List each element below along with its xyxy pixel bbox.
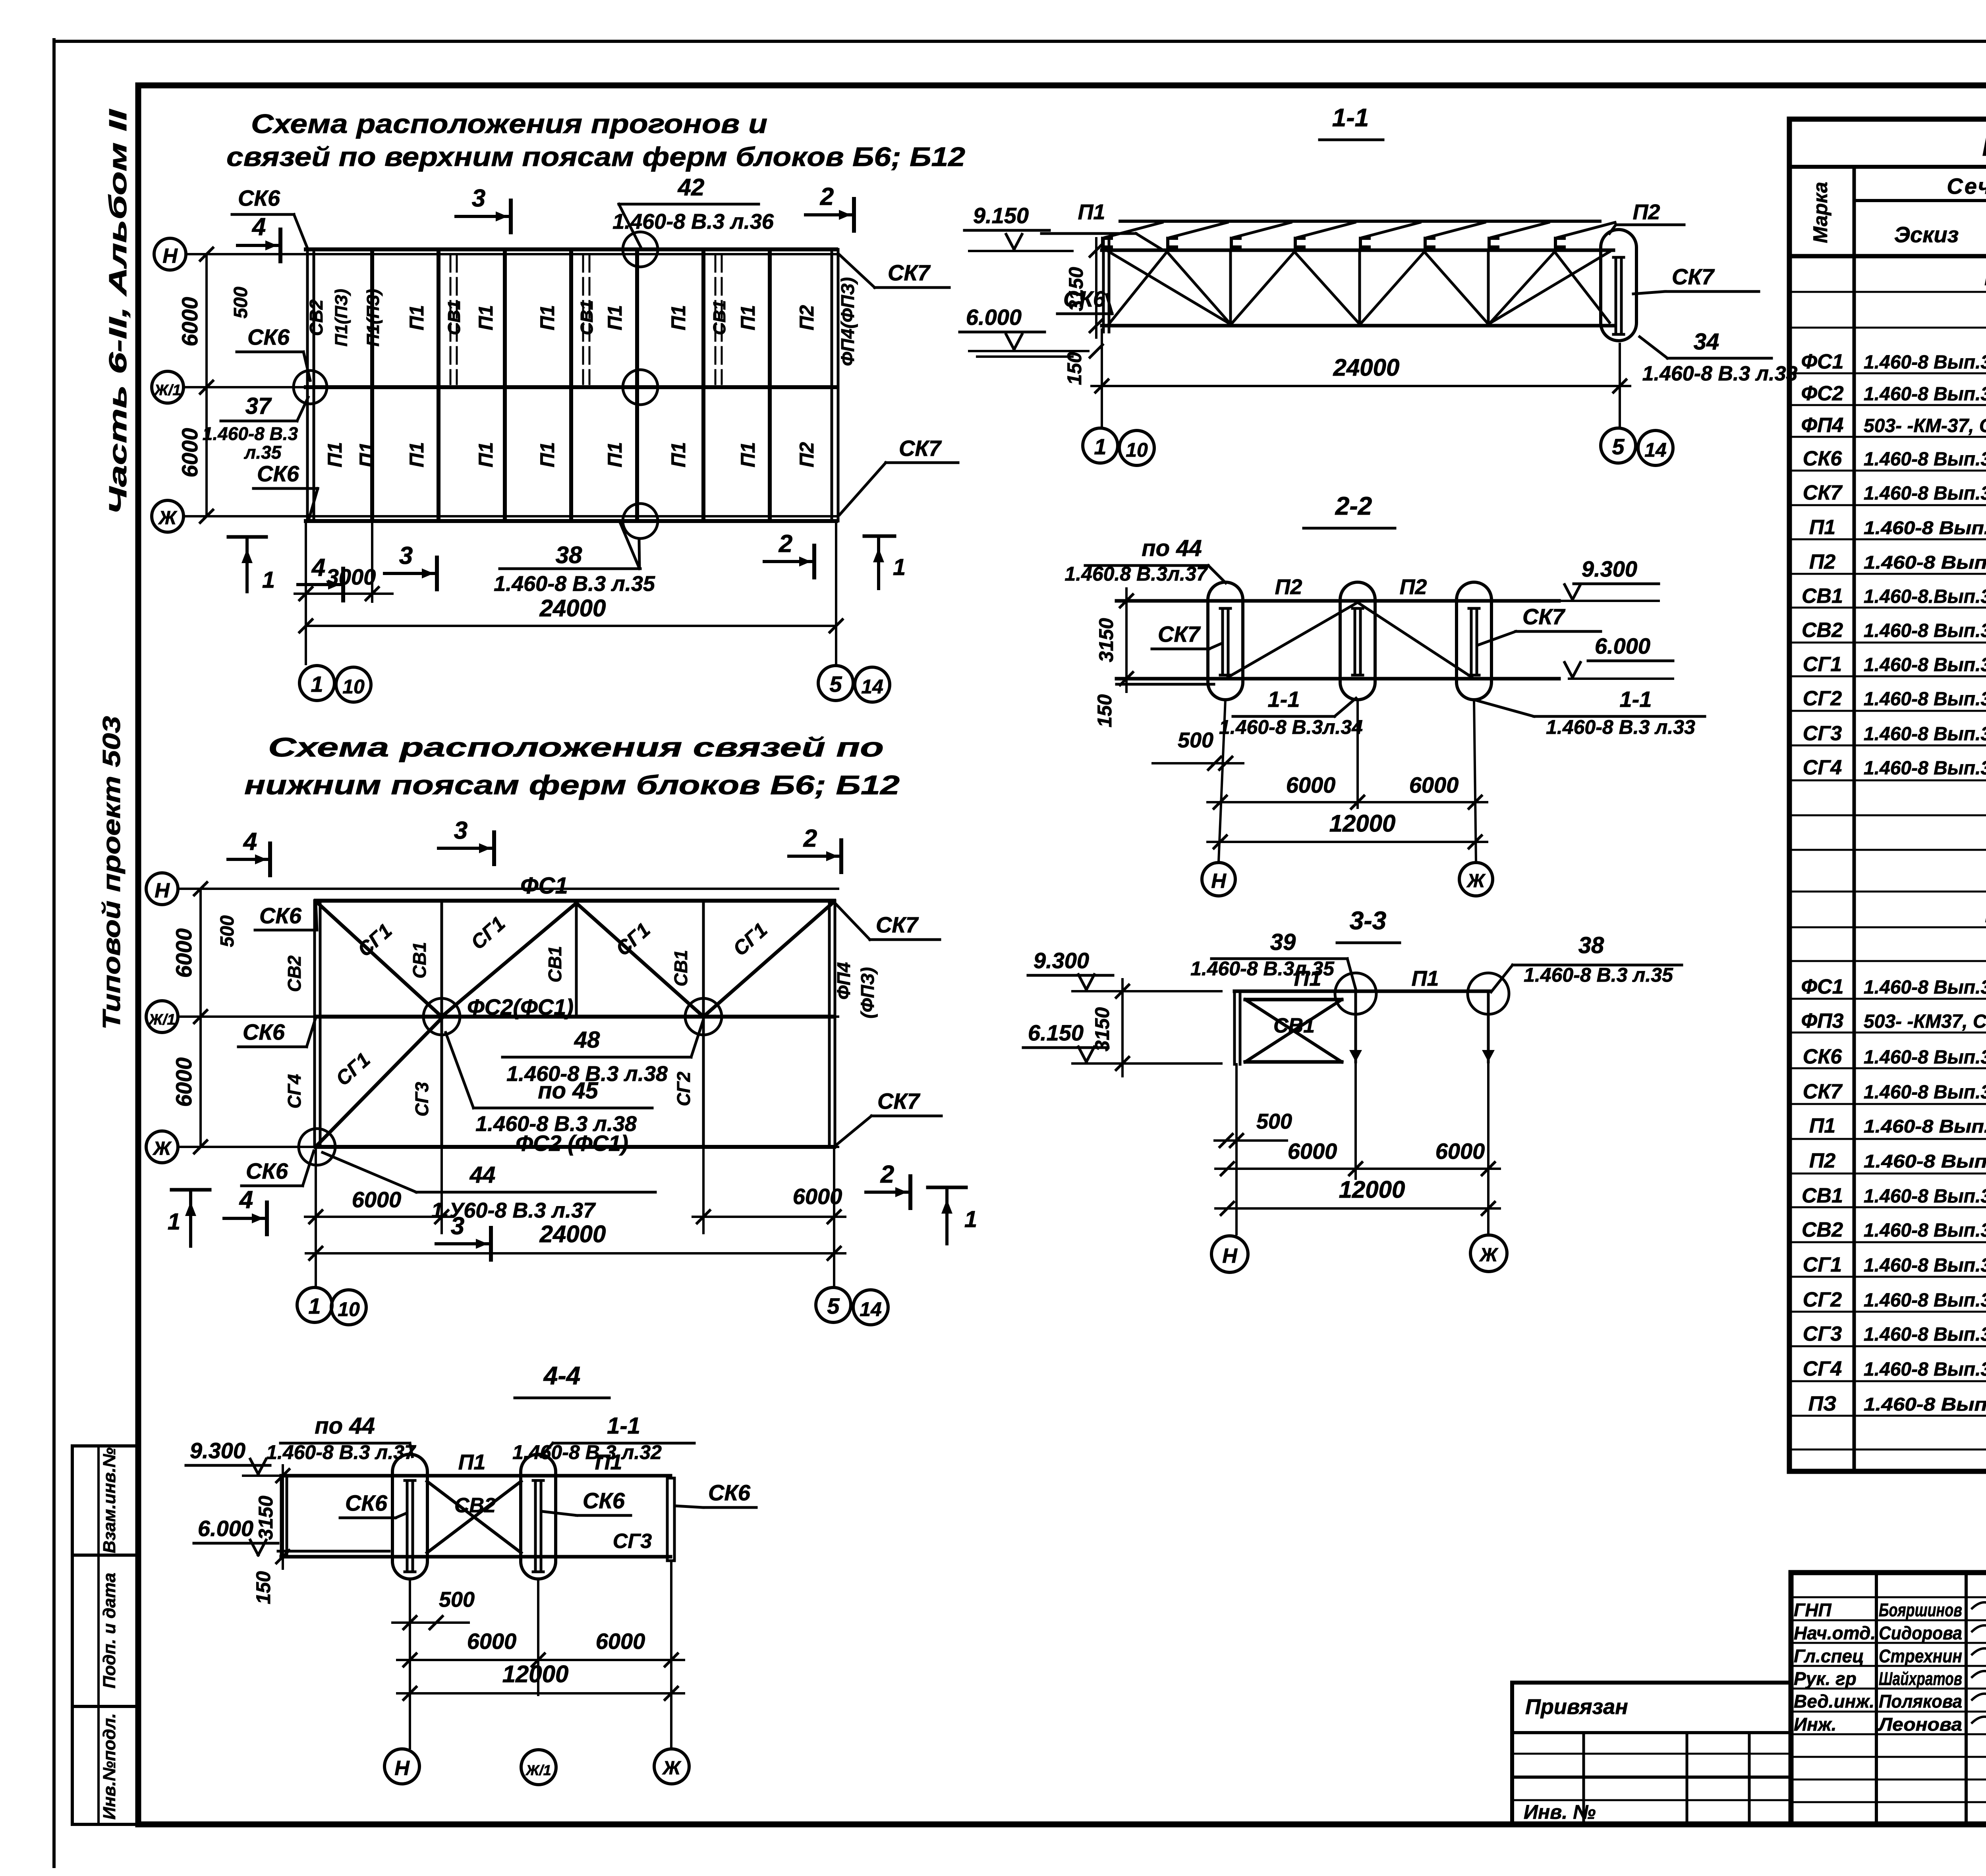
- extension lines (4-4): [409, 1579, 411, 1748]
- node circle right (3-3): [1468, 973, 1509, 1014]
- svg-text:СВ1: СВ1: [670, 950, 691, 986]
- svg-text:6000: 6000: [596, 1629, 645, 1654]
- svg-text:связей по верхним поясам ф: связей по верхним поясам ферм блоков Б6;…: [226, 142, 965, 172]
- truss 1-1 web diagonal: [1108, 252, 1167, 325]
- svg-text:Ж: Ж: [662, 1758, 682, 1779]
- 3-3 top chord: [1234, 990, 1490, 993]
- grid circle Н (3-3): [1211, 1236, 1248, 1272]
- svg-text:СК7: СК7: [876, 912, 919, 937]
- truss 1-1 web diagonal: [1109, 252, 1229, 323]
- svg-text:1.460-8 Вып.3 л.18, ССО-1: 1.460-8 Вып.3 л.18, ССО-1 (3шт.): [1864, 1047, 1986, 1068]
- svg-text:14: 14: [1644, 439, 1667, 461]
- svg-text:П1: П1: [458, 1450, 486, 1474]
- svg-text:1-1: 1-1: [1332, 103, 1369, 132]
- svg-text:СВ1: СВ1: [444, 300, 464, 335]
- svg-text:24000: 24000: [1333, 354, 1400, 381]
- svg-text:1.460-8 Вып.3 л.64, ГОСТ8278-8: 1.460-8 Вып.3 л.64, ГОСТ8278-83; СЕ-2 (2…: [1864, 1151, 1986, 1172]
- svg-text:СК6: СК6: [257, 461, 299, 486]
- svg-text:П1: П1: [667, 305, 690, 330]
- outer border top line: [54, 40, 1986, 43]
- svg-text:Н: Н: [394, 1757, 410, 1780]
- left vertical dim 6000/6000 (lower plan): [199, 889, 202, 1147]
- svg-text:1: 1: [311, 672, 323, 697]
- svg-text:5: 5: [827, 1293, 840, 1318]
- svg-text:4: 4: [311, 554, 325, 581]
- grid circle Ж/1 (4-4): [521, 1750, 556, 1785]
- svg-text:П1: П1: [737, 442, 759, 467]
- svg-text:СВ2: СВ2: [1802, 1218, 1843, 1241]
- lower plan left edge double: [313, 901, 316, 1147]
- grid circle Н (2-2): [1202, 863, 1235, 896]
- 3-3 left vertical double: [1233, 991, 1236, 1064]
- svg-text:6000: 6000: [467, 1629, 517, 1654]
- purlin bracket (1-1): [1103, 238, 1111, 247]
- grid line Ж: [184, 515, 838, 517]
- svg-text:П1: П1: [406, 305, 428, 330]
- svg-text:П1: П1: [1809, 1114, 1835, 1137]
- grid circle Ж/1 (upper plan): [152, 371, 184, 403]
- svg-text:1.460-8 Вып.3 л.64; ГОСТ8278-8: 1.460-8 Вып.3 л.64; ГОСТ8278-83, СП-2 (1…: [1864, 517, 1986, 538]
- svg-text:СК6: СК6: [1803, 447, 1843, 470]
- svg-text:1.460-8 В.3 л.35: 1.460-8 В.3 л.35: [1524, 964, 1673, 986]
- svg-text:1.460-8 Вып.3 л.18, ССО-5: 1.460-8 Вып.3 л.18, ССО-5 (2шт.): [1864, 1082, 1986, 1103]
- svg-text:Ж: Ж: [152, 1138, 172, 1159]
- svg-text:Гл.спец: Гл.спец: [1794, 1646, 1864, 1666]
- svg-text:СВ1: СВ1: [577, 300, 597, 335]
- svg-text:Н: Н: [1222, 1245, 1238, 1268]
- extension lines upper plan dims: [305, 524, 307, 664]
- 2-2 diagonal left: [1228, 602, 1358, 677]
- svg-text:24000: 24000: [539, 595, 606, 621]
- svg-text:1.460-8 Вып.3 л.61, СВ1 (1: 1.460-8 Вып.3 л.61, СВ1 (1шт.): [1864, 1290, 1986, 1311]
- purlin bracket (1-1): [1231, 238, 1240, 247]
- svg-text:150: 150: [252, 1571, 274, 1604]
- svg-text:34: 34: [1694, 329, 1719, 355]
- svg-text:П1: П1: [1294, 967, 1321, 990]
- upper plan middle chord: [306, 385, 836, 389]
- svg-text:л.35: л.35: [244, 442, 282, 463]
- extension lines lower plan dims: [315, 1150, 317, 1286]
- svg-text:Шайхратов: Шайхратов: [1879, 1668, 1962, 1689]
- svg-text:3150: 3150: [1091, 1007, 1113, 1051]
- svg-text:3150: 3150: [1095, 618, 1117, 662]
- title block outer frame: [1791, 1573, 1986, 1824]
- svg-text:1-1: 1-1: [607, 1413, 640, 1439]
- node circle 3 (lower plan bottom-left): [299, 1129, 335, 1165]
- svg-text:СК6: СК6: [345, 1490, 388, 1515]
- svg-text:6.000: 6.000: [198, 1516, 253, 1541]
- svg-text:3150: 3150: [255, 1496, 277, 1540]
- node circle 1 (lower plan): [423, 998, 460, 1035]
- truss 1-1 top chord: [1102, 249, 1613, 252]
- svg-text:нижним поясам ферм блоков: нижним поясам ферм блоков Б6; Б12: [244, 770, 900, 800]
- grid circle Ж (4-4): [654, 1749, 689, 1784]
- svg-text:1.460-8 В.3 л.37: 1.460-8 В.3 л.37: [266, 1441, 416, 1463]
- svg-text:6000: 6000: [352, 1187, 402, 1212]
- grid circle Ж (lower plan): [146, 1131, 178, 1163]
- purlin П1 line 1: [370, 252, 374, 519]
- svg-text:1.460-8.Вып.3 л.60, СР: 1.460-8.Вып.3 л.60, СР (3шт.): [1864, 586, 1986, 607]
- svg-text:СГ3: СГ3: [411, 1082, 432, 1116]
- svg-text:СК6: СК6: [243, 1019, 285, 1044]
- svg-text:ФС2(ФС1): ФС2(ФС1): [467, 994, 574, 1019]
- lower plan top chord ФС1: [316, 899, 834, 903]
- svg-text:9.300: 9.300: [1582, 556, 1637, 581]
- СВ2 cross brace (4-4): [427, 1481, 521, 1553]
- svg-text:37: 37: [245, 393, 272, 419]
- svg-text:П1: П1: [737, 305, 759, 330]
- grid circle Ж/1 (lower plan): [146, 1001, 178, 1033]
- 2-2 top chord П2: [1117, 599, 1559, 603]
- svg-text:СК6: СК6: [259, 903, 302, 928]
- svg-text:СК6: СК6: [1803, 1045, 1843, 1068]
- svg-text:1.460-8 Вып.3 л.64; ГОСТ8278-8: 1.460-8 Вып.3 л.64; ГОСТ8278-83, СП-2 (1…: [1864, 1116, 1986, 1137]
- svg-text:6000: 6000: [1286, 772, 1336, 797]
- svg-text:10: 10: [1126, 439, 1148, 461]
- svg-text:Взам.инв.№: Взам.инв.№: [100, 1448, 119, 1553]
- lower plan bottom chord ФС2: [316, 1145, 834, 1149]
- svg-text:500: 500: [1256, 1110, 1292, 1133]
- diagonal СГ1 b: [442, 903, 576, 1017]
- grid circle 14 (1-1): [1638, 430, 1673, 465]
- truss 1-1 web diagonal: [1488, 252, 1555, 325]
- svg-text:СК7: СК7: [888, 260, 931, 285]
- purlin bracket (1-1): [1360, 238, 1369, 247]
- svg-text:Сечение: Сечение: [1947, 174, 1986, 199]
- truss 1-1 web diagonal: [1360, 252, 1424, 325]
- svg-text:СК7: СК7: [1522, 604, 1566, 629]
- extension lines (2-2): [1219, 700, 1225, 862]
- svg-text:1.460-8 В.3 л.35: 1.460-8 В.3 л.35: [494, 572, 655, 596]
- dim 6000+6000 (3-3): [1215, 1168, 1500, 1170]
- grid circle Н (lower plan): [146, 873, 178, 905]
- svg-text:СК7: СК7: [1803, 1080, 1843, 1103]
- svg-text:1: 1: [168, 1209, 180, 1235]
- svg-text:П2: П2: [796, 442, 818, 467]
- svg-text:Марка: Марка: [1809, 182, 1831, 243]
- 4-4 left vertical double: [280, 1476, 283, 1557]
- svg-text:1.460-8 Вып.3 л.60, СР (: 1.460-8 Вып.3 л.60, СР (3 шт.): [1864, 1186, 1986, 1207]
- svg-text:Ж: Ж: [1479, 1245, 1499, 1266]
- svg-text:12000: 12000: [1339, 1176, 1405, 1203]
- svg-text:12000: 12000: [1329, 810, 1396, 837]
- svg-text:Ж: Ж: [1466, 870, 1486, 892]
- section mark 1 (bottom-right, upper plan): [864, 535, 894, 538]
- svg-text:Эскиз: Эскиз: [1894, 222, 1959, 247]
- svg-text:СК7: СК7: [877, 1089, 921, 1114]
- svg-text:СГ2: СГ2: [673, 1071, 694, 1106]
- svg-text:П1: П1: [667, 442, 690, 467]
- grid circle Н (4-4): [384, 1749, 419, 1784]
- svg-text:3: 3: [454, 817, 468, 844]
- svg-text:500: 500: [439, 1588, 475, 1612]
- svg-text:СВ1: СВ1: [710, 300, 729, 335]
- purlin П1 line 3: [503, 252, 507, 519]
- svg-text:по 44: по 44: [1142, 535, 1202, 561]
- grid circle 1 (lower plan): [297, 1287, 332, 1322]
- svg-text:Схема расположения связей п: Схема расположения связей по: [268, 732, 884, 762]
- svg-text:1.460-8 В.3 л.33: 1.460-8 В.3 л.33: [1642, 362, 1798, 385]
- table header cells: [1853, 167, 1856, 1471]
- svg-text:48: 48: [574, 1027, 600, 1053]
- svg-text:1.460-8 Вып.3 л.61, СВ1 (: 1.460-8 Вып.3 л.61, СВ1 (1шт.): [1864, 689, 1986, 710]
- svg-text:ГНП: ГНП: [1794, 1600, 1831, 1620]
- svg-text:6000: 6000: [177, 297, 202, 347]
- svg-text:38: 38: [1578, 932, 1604, 958]
- СК7 capsule (1-1 right end): [1601, 230, 1636, 341]
- outer border left line: [52, 40, 56, 1866]
- svg-text:СК6: СК6: [708, 1480, 751, 1505]
- title block signature row lines: [1791, 1596, 1986, 1598]
- svg-text:Схема расположения прогонов: Схема расположения прогонов и: [251, 109, 767, 139]
- svg-text:6000: 6000: [171, 1058, 196, 1107]
- svg-text:Часть 6-II, Альбом II: Часть 6-II, Альбом II: [104, 108, 132, 515]
- svg-text:1.460-8 В.3 л.36: 1.460-8 В.3 л.36: [612, 210, 774, 234]
- svg-text:3: 3: [399, 542, 413, 569]
- truss 1-1 web diagonal: [1231, 252, 1294, 325]
- svg-text:П1: П1: [1809, 516, 1835, 539]
- svg-text:1: 1: [964, 1206, 977, 1232]
- svg-text:1.460-8 Вып.3 л.60, СВС1 (1ш: 1.460-8 Вып.3 л.60, СВС1 (1шт.): [1864, 1220, 1986, 1241]
- svg-text:П1: П1: [475, 305, 497, 330]
- svg-text:П1: П1: [536, 305, 558, 330]
- svg-text:СВ1: СВ1: [1802, 1184, 1843, 1207]
- grid circle 1 (upper plan): [299, 666, 334, 701]
- svg-text:2: 2: [803, 825, 817, 852]
- svg-text:ФС2: ФС2: [1801, 382, 1843, 405]
- svg-text:П1: П1: [604, 305, 626, 330]
- svg-text:1.460-8 В.3 л.33: 1.460-8 В.3 л.33: [1546, 716, 1695, 738]
- svg-text:Нач.отд.: Нач.отд.: [1794, 1623, 1876, 1643]
- svg-text:12000: 12000: [502, 1661, 569, 1687]
- truss 1-1 left post: [1102, 240, 1105, 332]
- dim 12000 (3-3): [1215, 1207, 1500, 1210]
- truss 1-1 vertical: [1487, 250, 1490, 326]
- diagonal СГ1 a: [318, 903, 442, 1017]
- svg-text:5: 5: [1612, 434, 1625, 459]
- grid line Ж (lower plan): [178, 1146, 838, 1148]
- svg-text:1: 1: [1094, 434, 1106, 459]
- П1 roof purlin line (1-1): [1120, 220, 1600, 223]
- purlin П1 line 4: [569, 252, 573, 519]
- svg-text:СВ1: СВ1: [409, 942, 430, 979]
- svg-text:150: 150: [1093, 694, 1116, 728]
- svg-text:4: 4: [251, 213, 266, 241]
- grid circle 5 (upper plan): [818, 666, 853, 701]
- svg-text:Ведомость элементов: Ведомость элементов: [1982, 132, 1986, 161]
- svg-text:Ж/1: Ж/1: [525, 1762, 551, 1778]
- svg-text:Ж/1: Ж/1: [154, 382, 181, 399]
- svg-text:6.150: 6.150: [1028, 1020, 1084, 1045]
- svg-text:9.150: 9.150: [973, 203, 1029, 228]
- diagonal СГ1 e (lower half): [318, 1018, 442, 1145]
- СВ1 cross brace (3-3): [1245, 998, 1342, 1002]
- svg-text:1.460-8 Вып.3 л.18, ССО-1: 1.460-8 Вып.3 л.18, ССО-1 (3шт.): [1864, 449, 1986, 470]
- svg-text:1-1: 1-1: [1268, 687, 1300, 712]
- svg-text:4: 4: [239, 1186, 253, 1214]
- grid circle 5 (lower plan): [816, 1287, 851, 1322]
- grid line Ж/1 (lower plan): [178, 1015, 838, 1018]
- table row lines: [1789, 291, 1986, 293]
- grid circle 10 (1-1): [1119, 430, 1154, 465]
- svg-text:П1(ПЗ): П1(ПЗ): [332, 289, 351, 346]
- svg-text:СВ2: СВ2: [454, 1494, 496, 1517]
- svg-text:6000: 6000: [793, 1184, 842, 1209]
- svg-text:3-3: 3-3: [1350, 906, 1387, 935]
- svg-text:150: 150: [1063, 352, 1086, 385]
- svg-text:П2: П2: [1633, 200, 1660, 224]
- svg-text:2-2: 2-2: [1335, 492, 1372, 520]
- svg-text:38: 38: [556, 542, 582, 568]
- dim 12000 (4-4): [397, 1692, 684, 1695]
- svg-text:1.460-8 Вып.3 л.18, ССО-5: 1.460-8 Вып.3 л.18, ССО-5 (2шт.): [1864, 483, 1986, 504]
- grid circle Ж (upper plan): [152, 500, 184, 532]
- svg-text:СВ1: СВ1: [1802, 585, 1843, 608]
- СК7 capsule (2-2): [1208, 582, 1243, 700]
- svg-text:Ж/1: Ж/1: [148, 1011, 176, 1028]
- lower plan middle chord: [316, 1015, 834, 1019]
- svg-text:1.460-8 В.3л.34: 1.460-8 В.3л.34: [1219, 716, 1363, 738]
- Привязан sub-table: [1512, 1681, 1791, 1685]
- dim 6000+6000 (2-2): [1207, 801, 1487, 803]
- purlin bracket (1-1): [1168, 238, 1177, 247]
- svg-text:СГ4: СГ4: [1803, 756, 1842, 779]
- svg-text:Н: Н: [1211, 870, 1227, 893]
- svg-text:1.460-8 Вып.3 л.60, СВС1 (1: 1.460-8 Вып.3 л.60, СВС1 (1шт.): [1864, 620, 1986, 641]
- svg-text:СГ2: СГ2: [1803, 687, 1842, 710]
- 2-2 diagonal right: [1358, 602, 1472, 677]
- svg-text:3000: 3000: [326, 564, 376, 589]
- svg-text:Инж.: Инж.: [1794, 1714, 1837, 1735]
- node circle top (upper plan): [623, 232, 658, 267]
- vertical СВ1/СГ2 (x=1771): [702, 901, 705, 1147]
- dim 6000+6000 (4-4): [397, 1659, 684, 1661]
- svg-text:39: 39: [1270, 929, 1296, 955]
- truss 1-1 vertical: [1229, 250, 1232, 326]
- svg-text:1.460-8 Вып.3 л.61, Са 2ф (: 1.460-8 Вып.3 л.61, Са 2ф (1шт.): [1864, 758, 1986, 779]
- margin cell strip: [71, 1446, 74, 1824]
- purlin П1 line 5: [635, 252, 639, 519]
- svg-text:ФП4: ФП4: [1801, 414, 1844, 437]
- grid circle 10 (upper plan): [336, 667, 371, 702]
- svg-text:1.460-8 В.3: 1.460-8 В.3: [203, 423, 298, 444]
- svg-text:1.460-8 В.3 л.38: 1.460-8 В.3 л.38: [475, 1112, 637, 1136]
- 2-2 bottom chord: [1117, 677, 1559, 681]
- svg-text:СК7: СК7: [1803, 481, 1843, 504]
- svg-text:10: 10: [338, 1298, 360, 1320]
- svg-text:14: 14: [861, 676, 883, 698]
- svg-text:1.460-8 Вып.3 л.60, СБ1Т (5: 1.460-8 Вып.3 л.60, СБ1Т (5 шт.): [1864, 1255, 1986, 1276]
- svg-text:П2: П2: [1275, 575, 1302, 599]
- svg-text:6000: 6000: [1435, 1139, 1485, 1164]
- svg-text:1-1: 1-1: [1620, 687, 1652, 712]
- svg-text:СВ1: СВ1: [1273, 1014, 1315, 1037]
- svg-text:Леонова: Леонова: [1878, 1714, 1962, 1735]
- svg-text:9.300: 9.300: [1034, 948, 1089, 973]
- svg-text:1.460-8 В.3 л.32: 1.460-8 В.3 л.32: [512, 1441, 662, 1463]
- СК6 right bar (4-4): [667, 1478, 674, 1561]
- svg-text:Бояршинов: Бояршинов: [1879, 1600, 1962, 1620]
- element table outer frame: [1789, 119, 1986, 1471]
- svg-text:П1: П1: [536, 442, 558, 467]
- svg-text:1: 1: [893, 554, 906, 580]
- svg-text:Ж: Ж: [158, 508, 178, 529]
- grid circle 10 (lower plan): [331, 1290, 366, 1325]
- svg-text:П1: П1: [324, 442, 346, 467]
- svg-text:10: 10: [342, 676, 365, 698]
- svg-text:6000: 6000: [1288, 1139, 1337, 1164]
- 3-3 right vertical: [1487, 994, 1490, 1062]
- svg-text:СК6: СК6: [238, 185, 280, 210]
- svg-text:П2: П2: [1809, 1149, 1835, 1172]
- svg-text:6000: 6000: [1409, 772, 1459, 797]
- svg-text:2: 2: [820, 183, 834, 210]
- purlin bracket (1-1): [1555, 238, 1564, 247]
- СВ1 brace double dash line: [582, 255, 584, 384]
- truss 1-1 web diagonal: [1294, 252, 1360, 324]
- truss 1-1 web diagonal: [1424, 252, 1488, 324]
- svg-text:СВ2: СВ2: [306, 299, 326, 336]
- svg-text:СК7: СК7: [899, 436, 942, 461]
- svg-text:Подп. и дата: Подп. и дата: [100, 1573, 119, 1688]
- svg-text:П2: П2: [1400, 575, 1427, 599]
- СК6 capsule (4-4): [392, 1454, 427, 1579]
- svg-text:СК6: СК6: [246, 1158, 288, 1183]
- grid circle 14 (upper plan): [855, 667, 890, 702]
- svg-text:СК6: СК6: [247, 324, 290, 349]
- svg-text:П1: П1: [406, 442, 428, 467]
- svg-text:ПЗ: ПЗ: [1808, 1392, 1837, 1415]
- grid circle Ж (2-2): [1459, 863, 1493, 896]
- svg-text:44: 44: [469, 1162, 496, 1188]
- section mark 1 (bottom-left, upper plan): [228, 535, 266, 539]
- svg-text:П1: П1: [1412, 967, 1439, 990]
- purlin П1 line 7: [768, 252, 772, 519]
- СК6 capsule (4-4): [521, 1454, 556, 1579]
- svg-text:1.460-8 Вып.3 л.46, СФТ24-2,8: 1.460-8 Вып.3 л.46, СФТ24-2,80 (2шт.): [1864, 384, 1986, 405]
- svg-text:ФС1: ФС1: [1801, 975, 1843, 998]
- svg-text:1.460-8 Вып.3 л.61, Са 2р (1: 1.460-8 Вып.3 л.61, Са 2р (1шт.): [1864, 1324, 1986, 1345]
- truss 1-1 bottom chord: [1102, 324, 1613, 328]
- svg-text:1.460-8 Вып.3 л.60, СБ1Т (5: 1.460-8 Вып.3 л.60, СБ1Т (5шт.): [1864, 654, 1986, 676]
- svg-text:Инв.№подл.: Инв.№подл.: [100, 1713, 119, 1820]
- svg-text:24000: 24000: [539, 1221, 606, 1247]
- upper plan left edge (СВ2 double line): [306, 249, 309, 521]
- truss 1-1 web diagonal: [1167, 252, 1231, 324]
- svg-text:СГ1: СГ1: [1803, 653, 1842, 676]
- svg-text:Стрехнин: Стрехнин: [1879, 1646, 1962, 1666]
- node circle middle (upper plan): [623, 370, 658, 405]
- svg-text:3150: 3150: [1065, 267, 1087, 311]
- svg-text:(ФПЗ): (ФПЗ): [857, 967, 878, 1018]
- СК7 capsule (2-2): [1340, 582, 1375, 700]
- svg-text:42: 42: [678, 174, 705, 201]
- svg-text:5: 5: [829, 672, 842, 697]
- purlin bracket (1-1): [1295, 238, 1304, 247]
- purlin bracket (1-1): [1425, 238, 1434, 247]
- diagonal СГ1 d: [703, 903, 833, 1017]
- purlin П1 line 6: [701, 252, 705, 519]
- svg-text:СК7: СК7: [1672, 264, 1715, 289]
- svg-text:СГ4: СГ4: [1803, 1357, 1842, 1380]
- truss 1-1 web diagonal: [1555, 252, 1609, 322]
- svg-text:по 44: по 44: [315, 1413, 375, 1439]
- svg-text:Н: Н: [155, 879, 170, 902]
- dim 12000 (2-2): [1207, 841, 1487, 843]
- svg-text:1.460-8 Вып.3 л.46, СФТ24-1,8: 1.460-8 Вып.3 л.46, СФТ24-1,85 (1шт.): [1864, 352, 1986, 373]
- diagonal СГ1 c: [576, 903, 703, 1017]
- node circle 2 (lower plan): [685, 998, 722, 1035]
